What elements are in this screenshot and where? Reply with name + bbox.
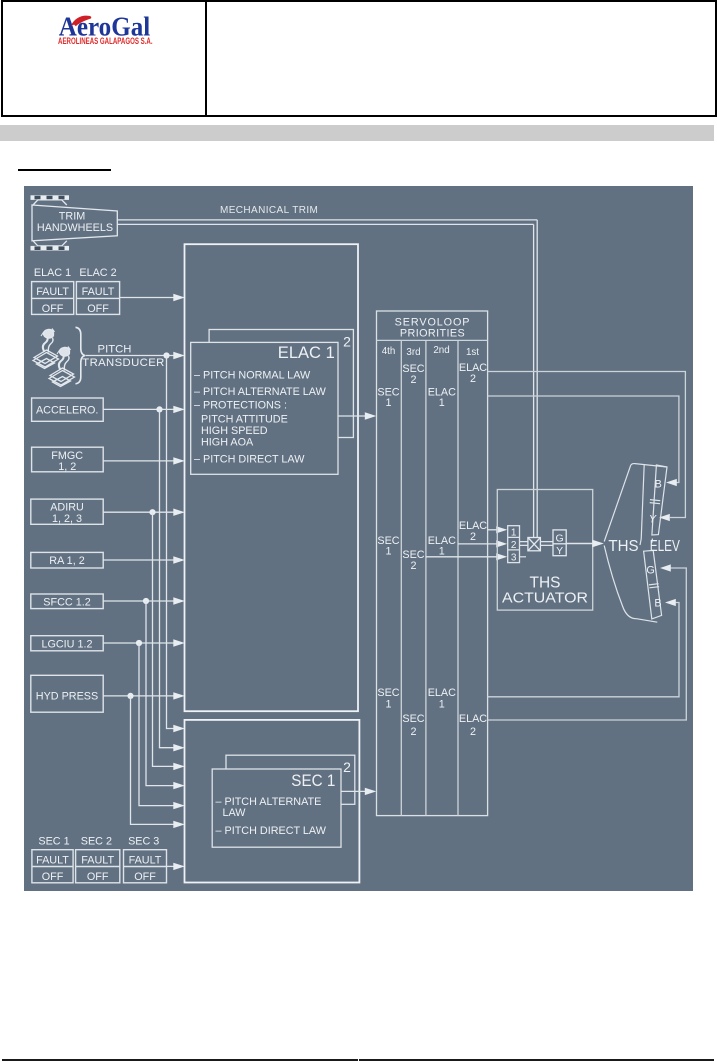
svg-text:G: G xyxy=(556,533,564,545)
svg-text:ELAC: ELAC xyxy=(459,713,487,725)
first officer sidestick icon xyxy=(49,347,75,387)
elevator feed wire 2nd to B servo xyxy=(488,396,679,483)
bus wire HYD to SEC xyxy=(131,696,175,825)
svg-text:ELAC: ELAC xyxy=(428,687,456,699)
THS actuator outer box xyxy=(497,490,592,611)
svg-text:ELAC 1: ELAC 1 xyxy=(34,267,71,279)
junction SFCC bus xyxy=(143,598,149,604)
SEC computer outer box xyxy=(185,720,360,883)
svg-text:PITCH ATTITUDE: PITCH ATTITUDE xyxy=(201,414,288,426)
svg-text:TRIM: TRIM xyxy=(59,211,85,223)
wire ELAC fault boxes to ELAC computer xyxy=(120,297,175,299)
hydraulic valve (X box) xyxy=(528,538,541,551)
ELAC 1 fault/off annunciator box xyxy=(32,282,120,315)
svg-text:– PITCH ALTERNATE LAW: – PITCH ALTERNATE LAW xyxy=(194,386,327,398)
svg-text:OFF: OFF xyxy=(87,871,109,883)
svg-text:ELEV: ELEV xyxy=(650,538,681,555)
svg-text:SEC: SEC xyxy=(402,713,424,725)
bus wire ADIRU to SEC xyxy=(153,512,175,766)
arrow into ELAC (fault line) xyxy=(173,294,185,301)
THS stabilizer lower surface outline xyxy=(604,546,657,623)
svg-text:1: 1 xyxy=(385,545,391,557)
svg-text:ELAC 2: ELAC 2 xyxy=(79,267,116,279)
svg-text:SEC 1: SEC 1 xyxy=(38,835,69,847)
arrow into THS surface xyxy=(592,540,604,548)
header table divider xyxy=(205,0,207,117)
svg-text:2nd: 2nd xyxy=(433,345,449,356)
svg-text:3: 3 xyxy=(511,552,517,563)
elevator feed wire ELAC2-1st to Y servo xyxy=(488,372,686,518)
ELAC computer outer box xyxy=(185,244,359,711)
ADIRU box xyxy=(31,499,103,524)
svg-text:ELAC 1: ELAC 1 xyxy=(278,344,335,362)
lower actuator strip (G/B cells) xyxy=(644,550,662,619)
svg-text:1: 1 xyxy=(385,699,391,711)
svg-text:– PITCH NORMAL LAW: – PITCH NORMAL LAW xyxy=(194,369,311,381)
mechanical trim double wire: horizontals xyxy=(117,220,537,538)
HYD PRESS box xyxy=(31,675,103,712)
svg-text:2: 2 xyxy=(343,334,351,350)
FMGC box xyxy=(32,447,104,472)
svg-text:2: 2 xyxy=(511,540,517,551)
svg-text:THS: THS xyxy=(608,538,638,555)
logo red bird swoosh xyxy=(71,16,91,27)
arrow into SEC (accelero) xyxy=(173,744,185,751)
svg-text:2: 2 xyxy=(470,726,476,738)
svg-text:ACTUATOR: ACTUATOR xyxy=(502,590,588,607)
hydraulic source G/Y box xyxy=(553,530,566,556)
svg-text:OFF: OFF xyxy=(134,871,156,883)
svg-text:SEC: SEC xyxy=(377,687,399,699)
svg-text:Y: Y xyxy=(649,513,657,525)
heading underline xyxy=(18,169,111,171)
arrow into Y servo xyxy=(659,514,670,521)
wire SEC 1 output to servoloop xyxy=(341,790,366,792)
SEC 3 fault/off annunciator box xyxy=(124,850,167,883)
RA box xyxy=(31,552,103,568)
pitch control schematic diagram xyxy=(24,186,693,891)
SFCC box xyxy=(31,594,103,609)
link motor 2 to valve (double) xyxy=(520,542,528,546)
arrow into ELAC (accelero) xyxy=(173,406,185,413)
svg-text:ACCELERO.: ACCELERO. xyxy=(36,405,98,417)
arrow into ELAC (HYD) xyxy=(173,692,185,699)
svg-text:– PITCH DIRECT LAW: – PITCH DIRECT LAW xyxy=(216,825,327,837)
servoloop priorities outer box xyxy=(377,311,488,816)
arrow into ELAC (ADIRU) xyxy=(173,509,185,516)
svg-text:SEC: SEC xyxy=(402,363,424,375)
svg-text:AEROLINEAS GALAPAGOS S.A.: AEROLINEAS GALAPAGOS S.A. xyxy=(58,36,153,46)
wire FMGC to ELAC xyxy=(103,460,174,462)
elevator feed wire ELAC2 lower to G servo xyxy=(488,568,687,720)
footer rule left xyxy=(2,1059,358,1061)
bus wire LGCIU to SEC xyxy=(139,643,175,806)
svg-text:TRANSDUCER: TRANSDUCER xyxy=(82,357,164,369)
svg-text:2: 2 xyxy=(470,373,476,385)
svg-text:LAW: LAW xyxy=(223,807,247,819)
junction pitch transducer bus xyxy=(163,352,169,358)
stub right of motor 3 xyxy=(520,556,527,558)
lower strip divider G/B xyxy=(649,584,659,588)
junction LGCIU bus xyxy=(136,640,142,646)
svg-text:FAULT: FAULT xyxy=(36,286,69,298)
svg-text:2: 2 xyxy=(343,759,351,775)
upper strip divider B/Y xyxy=(650,500,661,504)
svg-text:OFF: OFF xyxy=(42,303,64,315)
svg-text:PRIORITIES: PRIORITIES xyxy=(400,328,465,340)
header table frame xyxy=(1,0,717,117)
svg-text:LGCIU 1.2: LGCIU 1.2 xyxy=(41,638,92,650)
svg-text:1: 1 xyxy=(511,527,517,538)
trim handwheels icon: bottom wheel bar xyxy=(31,246,70,251)
SEC 2 fault/off annunciator box xyxy=(76,850,120,883)
svg-text:FAULT: FAULT xyxy=(82,286,115,298)
mechanical trim double wire: verticals down to THS actuator valve xyxy=(536,220,538,538)
arrow into motor select 3 xyxy=(496,553,507,560)
arrow into SEC (HYD) xyxy=(173,821,185,828)
servoloop column dividers xyxy=(401,340,458,815)
svg-text:MECHANICAL TRIM: MECHANICAL TRIM xyxy=(220,205,318,216)
arrow into SEC (LGCIU) xyxy=(173,802,185,809)
wire pitch transducer to ELAC xyxy=(86,355,175,357)
arrow into motor select 2 xyxy=(496,540,507,547)
svg-text:2: 2 xyxy=(410,726,416,738)
svg-text:HANDWHEELS: HANDWHEELS xyxy=(37,222,113,234)
SEC 1 fault/off annunciator box xyxy=(32,850,167,883)
arrow into ELAC (LGCIU) xyxy=(173,639,185,646)
arrow into G servo xyxy=(660,564,671,571)
bus wire SFCC to SEC xyxy=(146,601,175,786)
svg-text:SEC 2: SEC 2 xyxy=(81,835,112,847)
wire G/Y to THS surface xyxy=(566,543,593,545)
wire ADIRU to ELAC xyxy=(103,511,174,513)
svg-text:– PITCH ALTERNATE: – PITCH ALTERNATE xyxy=(216,796,322,808)
wire SFCC to ELAC xyxy=(103,600,174,602)
svg-text:FAULT: FAULT xyxy=(36,854,69,866)
arrow into ELAC (pitch transducer) xyxy=(173,352,185,359)
svg-text:1, 2: 1, 2 xyxy=(58,461,76,473)
svg-text:3rd: 3rd xyxy=(406,347,420,358)
upper actuator strip (B/Y cells) xyxy=(652,465,667,535)
bus wire accelero to SEC xyxy=(160,409,175,747)
svg-text:SERVOLOOP: SERVOLOOP xyxy=(395,316,471,328)
svg-text:OFF: OFF xyxy=(87,303,109,315)
svg-text:RA 1, 2: RA 1, 2 xyxy=(49,555,84,567)
link valve to G/Y (double) xyxy=(540,542,553,546)
svg-text:1: 1 xyxy=(439,545,445,557)
wire servoloop to THS motor 1 xyxy=(488,529,497,531)
trim handwheels icon: top rim xyxy=(33,200,67,205)
bus wire pitch transducer to SEC xyxy=(167,356,175,729)
wire servoloop to THS motor 2 xyxy=(458,543,497,545)
ACCELERO box xyxy=(32,398,104,421)
SEC 2 shadow box xyxy=(226,755,355,804)
svg-text:2: 2 xyxy=(470,531,476,543)
wire HYD PRESS to ELAC xyxy=(103,695,174,697)
svg-text:HIGH AOA: HIGH AOA xyxy=(201,437,254,449)
svg-text:4th: 4th xyxy=(382,346,396,357)
arrow into servoloop (SEC) xyxy=(365,788,377,795)
svg-text:– PITCH DIRECT LAW: – PITCH DIRECT LAW xyxy=(194,454,305,466)
svg-text:ADIRU: ADIRU xyxy=(50,502,84,514)
AeroGal logo xyxy=(0,0,210,60)
wire SEC fault boxes to SEC computer xyxy=(167,865,175,867)
arrow into ELAC (RA) xyxy=(173,556,185,563)
motor select boxes 1 2 3 xyxy=(508,526,520,563)
svg-text:1: 1 xyxy=(439,699,445,711)
captain sidestick icon xyxy=(33,329,59,369)
footer rule right xyxy=(359,1059,714,1061)
arrow into servoloop (ELAC) xyxy=(365,412,377,419)
svg-text:G: G xyxy=(646,564,654,576)
svg-text:OFF: OFF xyxy=(42,871,64,883)
arrow into SEC (pitch) xyxy=(173,725,185,732)
svg-text:SFCC 1.2: SFCC 1.2 xyxy=(43,596,90,608)
curly brace grouping sidesticks xyxy=(76,327,86,384)
THS stabilizer upper surface outline xyxy=(604,464,667,623)
junction HYD bus xyxy=(127,693,133,699)
elevator feed wire ELAC1 lower to B servo xyxy=(488,603,679,697)
arrow into SEC (fault line) xyxy=(173,863,185,870)
strip stubs at waist xyxy=(640,539,653,546)
svg-text:SEC 1: SEC 1 xyxy=(291,772,335,790)
svg-text:FAULT: FAULT xyxy=(129,854,162,866)
svg-text:HIGH SPEED: HIGH SPEED xyxy=(201,425,268,437)
ELAC 1 inner box xyxy=(191,342,338,474)
wire ELAC 1 output to servoloop xyxy=(338,415,366,417)
svg-text:B: B xyxy=(655,478,662,490)
arrow into lower B servo xyxy=(665,599,676,606)
trim handwheels icon: bottom rim xyxy=(33,241,67,246)
wire servoloop to THS motor 3 xyxy=(426,556,497,558)
svg-text:2: 2 xyxy=(410,560,416,572)
svg-text:B: B xyxy=(654,597,661,609)
junction ADIRU bus xyxy=(149,509,155,515)
diagram slate background xyxy=(24,186,693,891)
arrow into SEC (SFCC) xyxy=(173,782,185,789)
svg-text:PITCH: PITCH xyxy=(98,343,132,355)
svg-text:SEC 3: SEC 3 xyxy=(128,835,159,847)
svg-text:FAULT: FAULT xyxy=(81,854,114,866)
svg-text:Y: Y xyxy=(556,545,563,557)
arrow into SEC (ADIRU) xyxy=(173,763,185,770)
svg-text:1, 2, 3: 1, 2, 3 xyxy=(52,513,82,525)
trim handwheels icon: top wheel bar xyxy=(31,195,118,250)
svg-text:1st: 1st xyxy=(466,347,479,358)
ELAC 2 fault/off annunciator box xyxy=(76,282,119,315)
upper elevator hinge line xyxy=(641,465,644,540)
LGCIU box xyxy=(31,636,103,651)
svg-text:1: 1 xyxy=(439,397,445,409)
gray separator bar xyxy=(0,125,714,141)
svg-text:1: 1 xyxy=(385,397,391,409)
svg-text:FMGC: FMGC xyxy=(51,450,83,462)
wire LGCIU to ELAC xyxy=(103,642,174,644)
ELAC 2 shadow box xyxy=(209,330,353,438)
arrow into motor select 1 xyxy=(496,526,507,533)
svg-text:HYD PRESS: HYD PRESS xyxy=(36,691,98,703)
svg-text:2: 2 xyxy=(410,374,416,386)
wire ACCELERO to ELAC xyxy=(103,408,174,410)
junction accelero bus xyxy=(156,406,162,412)
arrow into B servo xyxy=(666,479,677,486)
servoloop header divider xyxy=(377,339,488,341)
SEC 1 inner box xyxy=(212,769,341,847)
arrow into ELAC (SFCC) xyxy=(173,597,185,604)
arrow into ELAC (FMGC) xyxy=(173,457,185,464)
trim handwheels icon: body xyxy=(32,205,117,241)
wire RA to ELAC xyxy=(103,559,174,561)
svg-text:– PROTECTIONS :: – PROTECTIONS : xyxy=(194,399,287,411)
